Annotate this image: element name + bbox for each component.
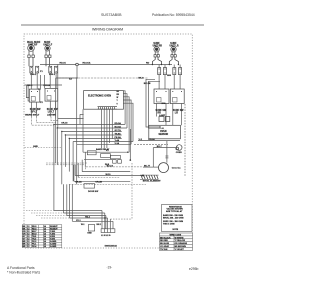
svg-text:LR: LR — [175, 112, 178, 114]
drop to fan wire — [152, 148, 154, 168]
convection motor circle — [159, 163, 169, 173]
oven control right stub wires — [123, 91, 133, 160]
dashed links to relay cluster — [46, 163, 87, 165]
svg-text:12: 12 — [27, 246, 29, 248]
header rule — [21, 24, 204, 26]
svg-text:WARM SW LT: WARM SW LT — [25, 114, 40, 117]
resistance notes box — [162, 205, 193, 232]
lamp feed wire (dashed) — [85, 167, 143, 169]
svg-text:OR-90: OR-90 — [148, 139, 155, 141]
left wire bundle verticals — [54, 65, 83, 222]
inline connector below LF unit — [45, 55, 51, 66]
door switch wire — [74, 180, 130, 182]
wire into motor — [143, 166, 159, 168]
bus to right switch drops — [159, 65, 180, 68]
harness wires — [54, 211, 113, 229]
wires from left switch bodies down — [31, 101, 55, 116]
bottom harness connector — [101, 229, 115, 233]
relay contacts — [113, 160, 122, 164]
svg-text:5995543544: 5995543544 — [105, 244, 118, 247]
svg-text:BK-2: BK-2 — [27, 85, 33, 87]
svg-text:Publication No: 5995543544: Publication No: 5995543544 — [152, 13, 195, 17]
junction dot — [69, 138, 70, 139]
svg-text:V VIOLET: V VIOLET — [175, 249, 185, 251]
svg-text:PK-9A: PK-9A — [115, 136, 122, 139]
svg-text:Oven fan: Oven fan — [172, 168, 182, 170]
svg-text:UNIT RR: UNIT RR — [153, 45, 163, 47]
svg-text:TN-8A: TN-8A — [115, 133, 122, 136]
surface switch RR body — [154, 89, 169, 104]
svg-text:W-10: W-10 — [106, 174, 112, 176]
svg-text:RD-5A: RD-5A — [115, 122, 122, 125]
electronic oven control box — [84, 91, 124, 110]
svg-text:-19-: -19- — [107, 266, 113, 270]
svg-text:SENSOR: SENSOR — [159, 134, 169, 136]
svg-text:GY GRAY: GY GRAY — [160, 245, 170, 248]
feed wire across to right — [56, 77, 148, 79]
surface switch RR contacts — [158, 68, 167, 75]
svg-text:TN TAN: TN TAN — [160, 248, 168, 251]
svg-text:OR ORANGE: OR ORANGE — [175, 242, 188, 245]
dashed wire right side — [184, 104, 186, 176]
svg-text:BU BLUE: BU BLUE — [160, 243, 170, 245]
oven relay box — [149, 125, 181, 139]
bundle elbows into legend table — [26, 211, 70, 219]
right switch to body drops — [159, 75, 180, 89]
lower dashed wire — [69, 183, 146, 185]
surface unit RR — [154, 47, 159, 55]
svg-text:LF-LT: LF-LT — [48, 111, 55, 113]
svg-text:V-3A: V-3A — [115, 142, 120, 145]
wires below oven control — [102, 109, 113, 148]
svg-text:ELECTRONIC OVEN: ELECTRONIC OVEN — [88, 94, 111, 97]
dashed wire under neutral — [78, 176, 120, 178]
surface switch LF body — [45, 88, 58, 101]
inline connector below RF unit — [28, 55, 35, 66]
dashed wire to left border — [24, 147, 62, 149]
wire labels center — [61, 122, 121, 145]
junction dot — [127, 152, 128, 153]
svg-text:L1 N L2 G: L1 N L2 G — [101, 235, 111, 237]
svg-text:OR-2A: OR-2A — [75, 181, 82, 184]
riser wires from relay cluster — [74, 152, 85, 181]
svg-text:BK BLACK: BK BLACK — [160, 236, 171, 239]
svg-text:W WHITE: W WHITE — [175, 237, 185, 239]
junction dot — [159, 126, 160, 127]
junction dot — [104, 217, 105, 218]
surface switch LR contacts — [173, 68, 182, 75]
junction dot — [162, 128, 163, 129]
svg-text:W: W — [117, 97, 119, 99]
page background — [0, 0, 218, 285]
left feed branch wires — [26, 85, 29, 101]
svg-text:UNIT RF: UNIT RF — [28, 44, 38, 46]
broil element hatched — [140, 175, 159, 179]
surface switch RF contacts — [30, 66, 39, 73]
svg-text:RD-81: RD-81 — [60, 63, 67, 65]
svg-text:G-GND: G-GND — [50, 246, 57, 248]
svg-text:RD-81A: RD-81A — [83, 62, 91, 65]
svg-text:OVEN: OVEN — [176, 152, 182, 154]
svg-text:BU-7: BU-7 — [157, 146, 163, 148]
wire from bus node down — [56, 66, 77, 78]
svg-text:BU-6A: BU-6A — [115, 126, 122, 129]
svg-text:OR-2B: OR-2B — [95, 182, 102, 184]
svg-text:THIS 1 OHM: THIS 1 OHM — [163, 223, 175, 225]
oven control pin labels right — [117, 91, 120, 106]
left feed wire — [24, 84, 62, 86]
pilot lamp — [159, 117, 170, 122]
svg-text:A Functional Parts: A Functional Parts — [7, 266, 35, 270]
relay cluster wires — [83, 152, 129, 160]
svg-text:BU-7A: BU-7A — [107, 164, 114, 167]
wire code table — [160, 233, 193, 251]
junction dot — [53, 124, 54, 125]
svg-text:GY-7A: GY-7A — [115, 129, 122, 132]
legend table text — [23, 225, 59, 248]
neutral wire across — [75, 175, 143, 177]
svg-text:e295b: e295b — [189, 267, 199, 271]
svg-text:WIRE CODE: WIRE CODE — [170, 234, 182, 236]
fan feed with connector ticks — [165, 141, 168, 163]
main L1 bus wire — [40, 64, 172, 66]
dashed wires from switch bodies — [31, 117, 57, 126]
wire code table text — [160, 234, 188, 251]
right feed wire 1 — [146, 79, 163, 128]
junction node — [142, 175, 144, 177]
oven control connector pins — [98, 107, 118, 110]
svg-text:BU-77: BU-77 — [144, 165, 151, 167]
dashed L wire bottom center — [110, 163, 132, 219]
svg-text:BROIL 208 - 230 OHM: BROIL 208 - 230 OHM — [163, 217, 184, 219]
inline connector below LR unit — [169, 55, 178, 65]
resistance notes text — [163, 205, 184, 231]
svg-text:DOOR SW: DOOR SW — [88, 191, 98, 193]
svg-text:Y YELLOW: Y YELLOW — [175, 240, 185, 242]
surface switch LR body — [170, 89, 184, 104]
junction dot — [76, 77, 77, 78]
svg-text:WIRING DIAGRAM: WIRING DIAGRAM — [92, 27, 123, 31]
surface switch RF body — [29, 89, 40, 102]
horizontal wire rows center — [54, 114, 133, 144]
relay board box 1 — [87, 151, 96, 155]
svg-text:Y-4A: Y-4A — [115, 139, 120, 142]
svg-text:LIMITER: LIMITER — [47, 115, 56, 117]
relay board box 3 — [110, 155, 120, 159]
svg-text:LAMP: LAMP — [159, 114, 166, 117]
svg-text:GND: GND — [87, 233, 92, 235]
inline connector below RR unit — [152, 55, 161, 65]
svg-text:ARE TYPICAL AT: ARE TYPICAL AT — [166, 210, 183, 213]
surface unit RF (dual element) — [28, 45, 35, 55]
relay board box 2 — [101, 154, 111, 158]
junction dot — [57, 127, 58, 128]
svg-text:RD RED: RD RED — [160, 240, 168, 242]
svg-text:NOTE: NOTE — [173, 229, 179, 231]
surface switch LF contacts — [49, 66, 58, 73]
svg-text:* Non-Illustrated Parts: * Non-Illustrated Parts — [7, 271, 40, 275]
wire below oven relay — [138, 140, 180, 142]
junction dot — [61, 131, 62, 132]
svg-text:BK-8: BK-8 — [138, 77, 144, 79]
svg-text:UNIT LF: UNIT LF — [43, 44, 52, 46]
svg-text:RD: RD — [146, 63, 150, 65]
bus junction dots right — [152, 64, 179, 65]
svg-text:UNIT LR: UNIT LR — [170, 45, 179, 47]
svg-text:OVEN: OVEN — [160, 131, 167, 133]
diagram dashed border frame — [24, 34, 192, 248]
svg-text:BROIL ELEMENT: BROIL ELEMENT — [143, 181, 161, 183]
door latch switch box — [84, 184, 95, 189]
motor wire — [82, 171, 130, 173]
junction dots center — [65, 134, 66, 135]
svg-text:BR BROWN: BR BROWN — [175, 246, 187, 248]
svg-text:GND: GND — [33, 146, 38, 148]
bus junction node — [76, 63, 79, 66]
wire into lamp — [153, 147, 176, 149]
left switch to body drops — [31, 73, 56, 89]
svg-text:OR-33: OR-33 — [61, 123, 68, 125]
wiring legend table — [22, 225, 62, 248]
svg-text:SUS73AB0B: SUS73AB0B — [101, 13, 122, 17]
junction dot — [130, 159, 132, 161]
right body bottom drops — [157, 104, 182, 126]
svg-text:BK-2B: BK-2B — [144, 83, 151, 85]
surface unit LF — [45, 46, 50, 55]
oven lamp small — [176, 145, 182, 151]
surface unit LR — [171, 47, 176, 55]
dashed wire below relay — [134, 143, 168, 145]
small run component — [88, 225, 94, 231]
